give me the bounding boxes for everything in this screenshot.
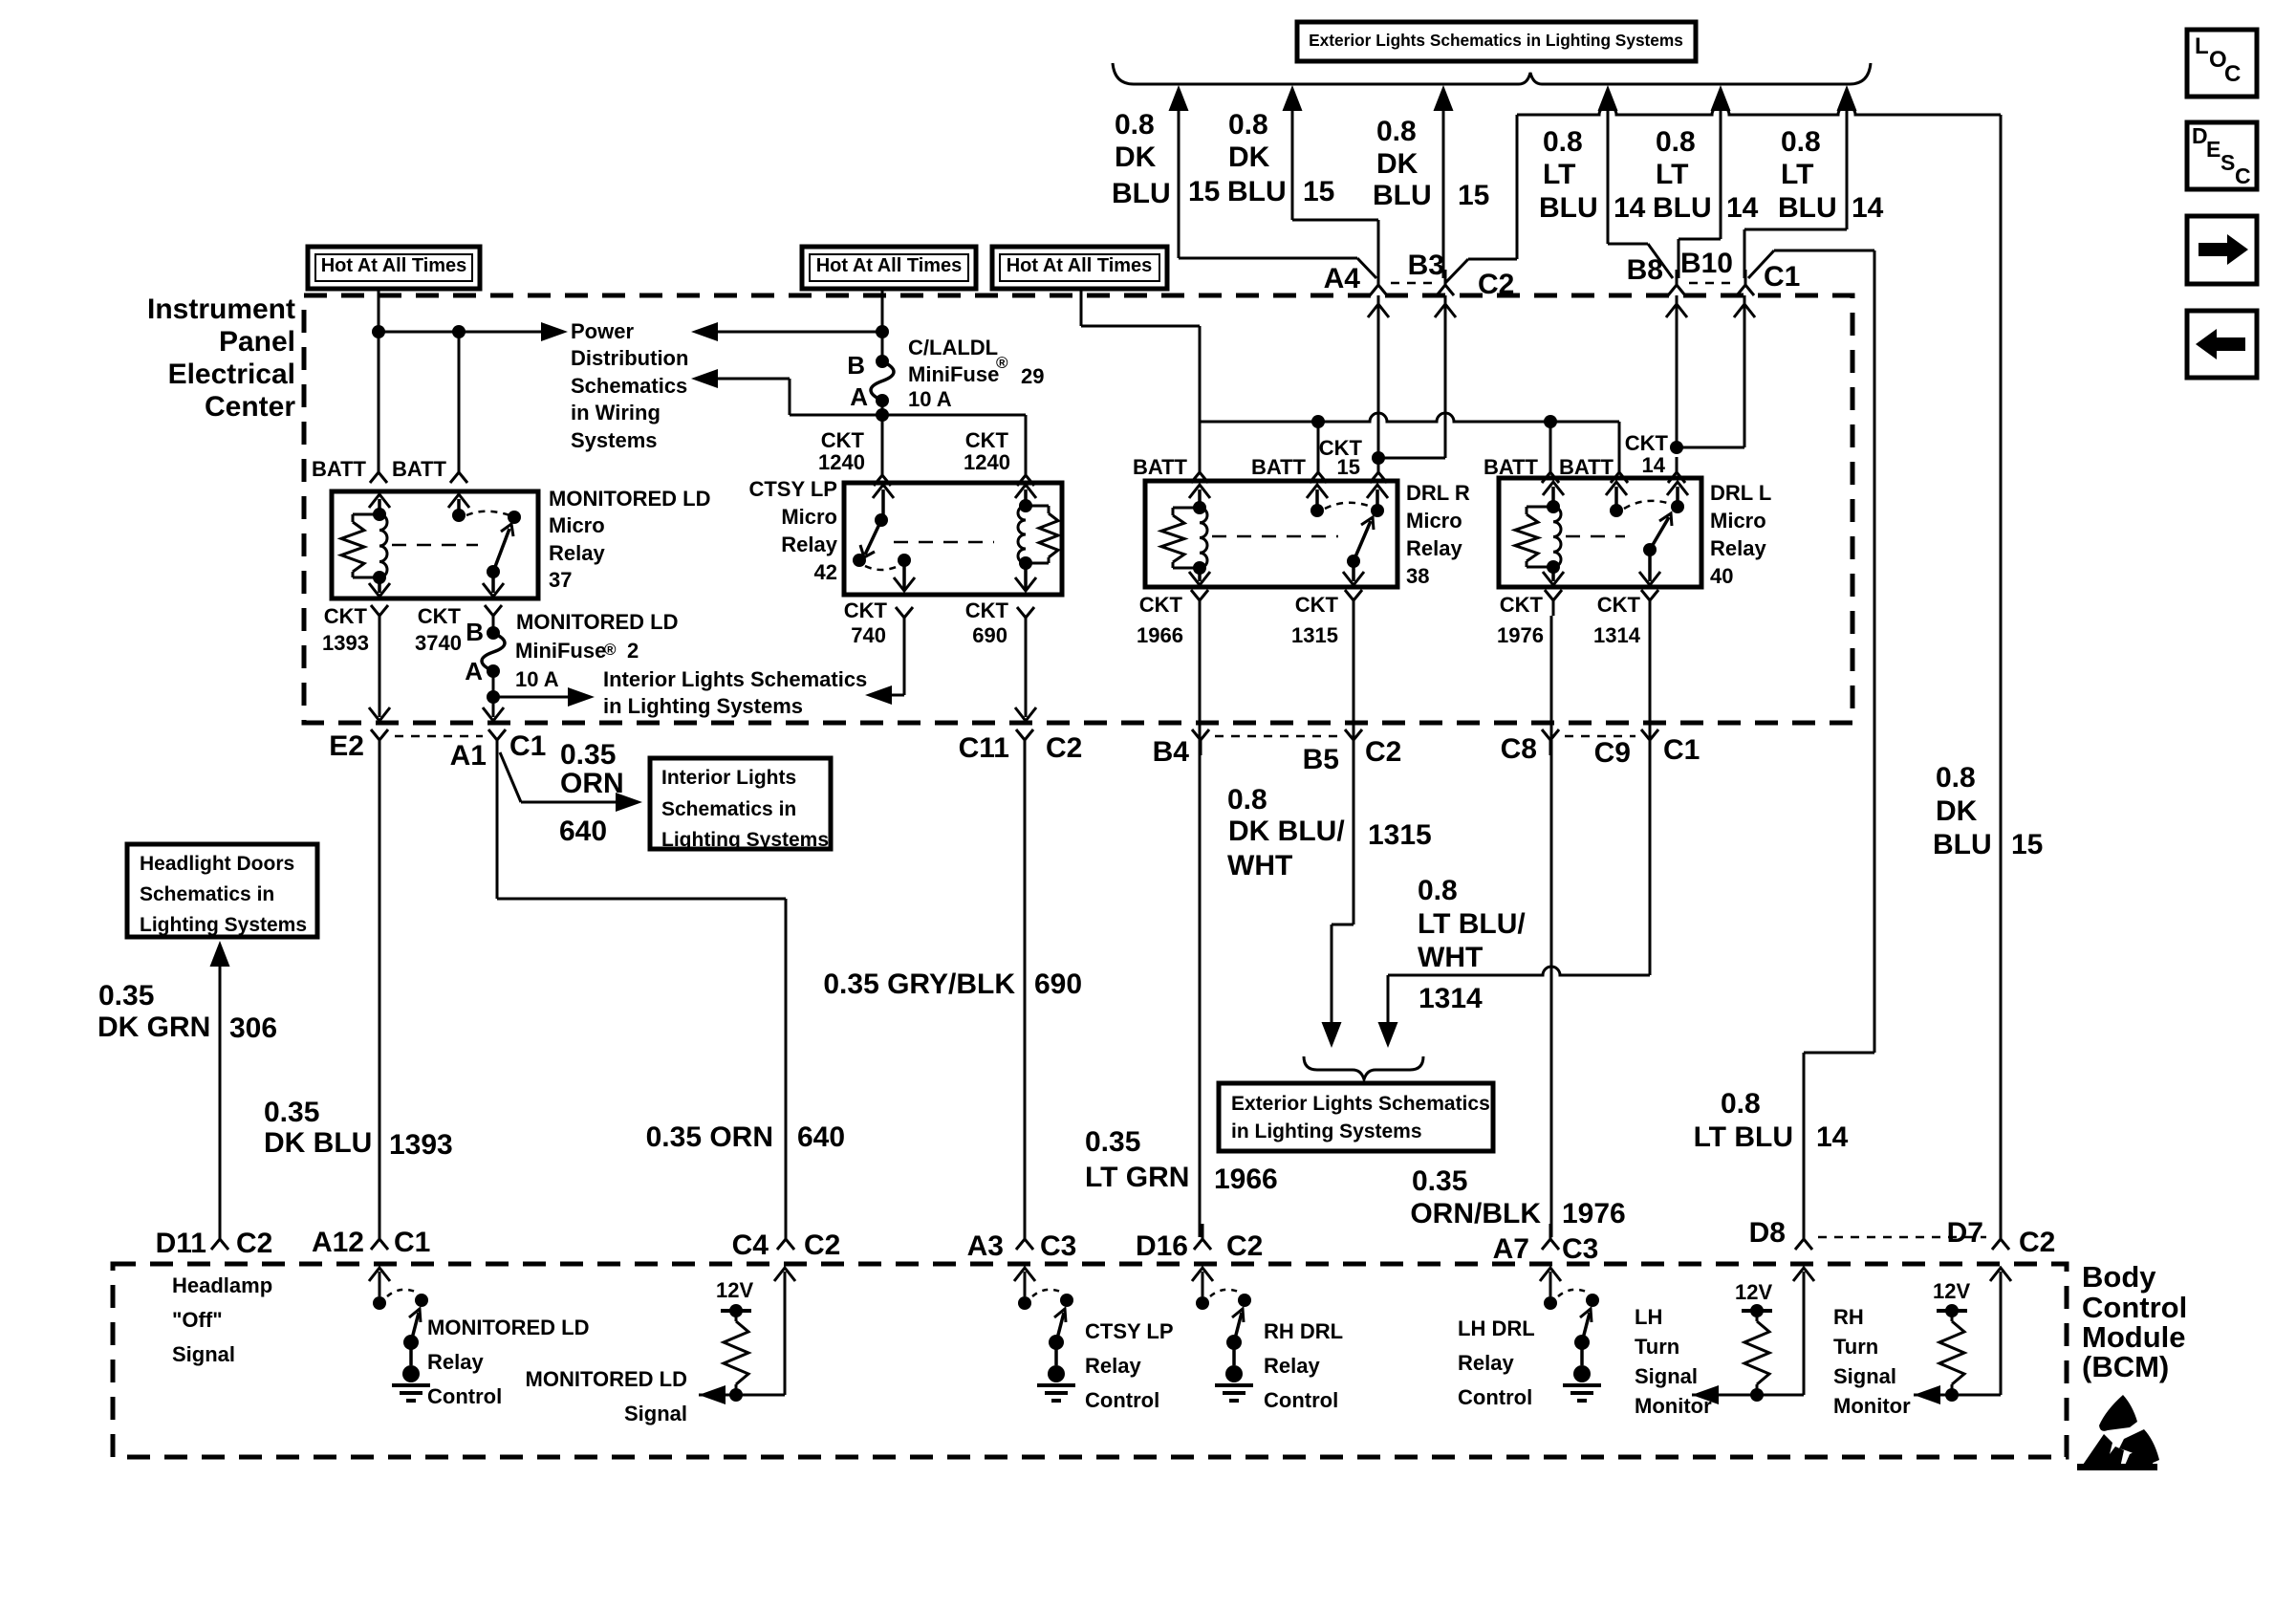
- wire: E2 to BCM A12 (0.35 DK BLU 1393): [379, 755, 381, 1237]
- svg-text:1966: 1966: [1214, 1164, 1278, 1195]
- label: CTSY LP Relay Control: [1085, 1319, 1174, 1412]
- svg-text:0.35: 0.35: [1412, 1165, 1467, 1197]
- svg-text:690: 690: [1034, 968, 1082, 1000]
- relay K40 coil output arrow (bottom): [1543, 567, 1564, 585]
- svg-text:C1: C1: [1663, 734, 1700, 766]
- svg-text:Signal: Signal: [1833, 1364, 1896, 1388]
- svg-text:3740: 3740: [415, 631, 462, 655]
- label box: Hot At All Times (left): [308, 247, 480, 289]
- arrow into Interior Lights Schematics box: [616, 793, 642, 812]
- switch: LH DRL Relay Control driver: [1540, 1268, 1601, 1401]
- svg-text:C4: C4: [732, 1229, 769, 1261]
- svg-text:Systems: Systems: [571, 428, 658, 452]
- icon box forward arrow: [2187, 216, 2257, 284]
- connector pin CKT 1966: [1137, 590, 1208, 647]
- svg-text:Instrument: Instrument: [147, 294, 295, 325]
- svg-text:DK: DK: [1115, 141, 1157, 173]
- relay K37 coil with parallel resistor: [341, 508, 387, 584]
- relay K40 switch feed pin arrow (top): [1667, 482, 1688, 507]
- svg-text:1976: 1976: [1562, 1198, 1626, 1229]
- svg-text:Distribution: Distribution: [571, 346, 688, 370]
- wire and junction: fuse 2 output: [483, 671, 572, 721]
- svg-text:LT BLU/: LT BLU/: [1418, 908, 1526, 940]
- svg-text:1966: 1966: [1137, 623, 1183, 647]
- svg-text:WHT: WHT: [1227, 850, 1292, 881]
- wire: BCM D11 to Headlight Doors box (0.35 DK GRN 306): [210, 941, 230, 1237]
- svg-text:15: 15: [2011, 829, 2043, 860]
- svg-text:L: L: [2195, 33, 2209, 59]
- svg-text:BLU: BLU: [1373, 180, 1432, 211]
- svg-text:0.8: 0.8: [1227, 784, 1267, 816]
- svg-text:Exterior Lights Schematics in: Exterior Lights Schematics in Lighting S…: [1309, 31, 1683, 50]
- svg-text:12V: 12V: [716, 1278, 753, 1302]
- svg-text:MONITORED LD: MONITORED LD: [427, 1316, 589, 1339]
- svg-text:Center: Center: [205, 391, 295, 423]
- relay K42 coil pin arrow (top): [1015, 485, 1036, 506]
- svg-text:0.35: 0.35: [264, 1097, 319, 1128]
- connector pin A12 of connector C1: [312, 1224, 430, 1258]
- wire: CKT 1966 to BCM D16 (0.35 LT GRN 1966): [1199, 616, 1202, 1237]
- svg-text:2: 2: [627, 639, 639, 663]
- label: 0.35 DK BLU 1393: [264, 1097, 453, 1161]
- label: DRL R Micro Relay 38: [1406, 481, 1470, 588]
- svg-text:LT GRN: LT GRN: [1085, 1162, 1189, 1193]
- label box: Interior Lights Schematics in Lighting Systems: [650, 758, 831, 851]
- connector pin CKT 1240 (left): [818, 428, 891, 486]
- svg-text:306: 306: [229, 1012, 277, 1044]
- svg-text:Relay: Relay: [1710, 536, 1766, 560]
- svg-text:MiniFuse: MiniFuse: [515, 639, 606, 663]
- svg-text:Micro: Micro: [781, 505, 837, 529]
- relay K40 switch common pin arrow (top): [1606, 482, 1627, 511]
- connector pin CKT 1240 (right): [964, 428, 1034, 486]
- svg-text:BLU: BLU: [1778, 192, 1837, 224]
- connector pin C4 of connector C2: [732, 1224, 841, 1261]
- svg-text:0.8: 0.8: [1543, 126, 1583, 158]
- junction dot at top of fuse 29 wire: [876, 325, 889, 338]
- connector pin D7 of connector C2: [1818, 1217, 2055, 1258]
- svg-text:Relay: Relay: [549, 541, 605, 565]
- svg-text:Relay: Relay: [1458, 1351, 1514, 1375]
- wire: 0.8 DK BLU 15 (A4 branch 2) to exterior lights: [1283, 85, 1379, 278]
- svg-text:Micro: Micro: [549, 513, 605, 537]
- svg-text:CKT: CKT: [1597, 593, 1641, 617]
- svg-text:BATT: BATT: [1559, 455, 1614, 479]
- svg-text:C3: C3: [1040, 1230, 1076, 1262]
- svg-text:640: 640: [559, 816, 607, 847]
- wire: 0.8 DK BLU 15 (B3 branch) to exterior lights: [1434, 85, 1454, 278]
- svg-text:10 A: 10 A: [515, 667, 559, 691]
- label box: Headlight Doors Schematics in Lighting Systems: [127, 844, 317, 937]
- connector pin CKT 1393: [322, 604, 388, 655]
- connector pin D8: [1749, 1217, 1812, 1250]
- svg-text:Monitor: Monitor: [1833, 1394, 1911, 1418]
- svg-text:42: 42: [814, 560, 837, 584]
- wire: 0.8 LT BLU 14 (B8 branch 1) to exterior lights: [1598, 85, 1674, 278]
- connector pin B10 of connector C1: [1680, 248, 1800, 295]
- connector pin BATT (relay 38 coil): [1133, 455, 1208, 483]
- svg-text:1976: 1976: [1497, 623, 1544, 647]
- svg-text:C/LALDL: C/LALDL: [908, 336, 998, 359]
- svg-text:CKT: CKT: [1500, 593, 1544, 617]
- wire: A4/B3 join to relay 38 switch CKT 15: [1368, 295, 1456, 458]
- brace over Exterior Lights Schematics box (middle): [1304, 1056, 1423, 1079]
- svg-text:CKT: CKT: [1625, 431, 1669, 455]
- resistor: 12V pull-up RH Turn Signal Monitor (D7): [1914, 1268, 2011, 1404]
- label: 0.8 DK BLU 15 (wire 1): [1112, 109, 1220, 209]
- svg-text:Panel: Panel: [219, 326, 295, 358]
- connector pin CKT 740: [844, 598, 913, 647]
- svg-text:BATT: BATT: [1484, 455, 1539, 479]
- svg-text:LT BLU: LT BLU: [1694, 1121, 1793, 1153]
- svg-text:ORN/BLK: ORN/BLK: [1410, 1198, 1541, 1229]
- svg-text:Relay: Relay: [1406, 536, 1462, 560]
- BATT bus over relays 38 and 40: [1200, 413, 1619, 466]
- svg-text:RH DRL: RH DRL: [1264, 1319, 1343, 1343]
- wire: CKT 1314 to exterior lights arrow (0.8 LT BLU/WHT 1314): [1378, 616, 1651, 1048]
- svg-text:Exterior Lights Schematics: Exterior Lights Schematics: [1231, 1093, 1490, 1115]
- label: C/LALDL MiniFuse 29 10 A: [908, 336, 1044, 411]
- label: MONITORED LD Micro Relay 37: [549, 487, 710, 592]
- svg-text:Micro: Micro: [1710, 509, 1766, 533]
- wire: Hot At All Times (right) feed to BATT bus: [1081, 289, 1200, 422]
- brace under exterior lights box: [1113, 63, 1871, 84]
- svg-text:0.8: 0.8: [1721, 1088, 1761, 1120]
- relay K40 switch: [1610, 500, 1684, 585]
- connector pin CKT 14: [1625, 431, 1685, 483]
- junction dot CKT 15: [1372, 451, 1385, 465]
- svg-text:0.35 ORN: 0.35 ORN: [646, 1121, 773, 1153]
- wire: CKT 1315 to exterior lights arrow (0.8 DK BLU/WHT 1315): [1322, 616, 1354, 1048]
- wire: A1 branch to Interior Lights Schematics box: [500, 752, 619, 802]
- icon box back arrow: [2187, 311, 2257, 378]
- svg-text:B8: B8: [1627, 254, 1663, 286]
- svg-text:14: 14: [1852, 192, 1884, 224]
- svg-text:Module: Module: [2082, 1320, 2186, 1354]
- wire: 0.8 LT BLU 14 (B10 branch) to exterior lights: [1744, 85, 1857, 278]
- svg-text:14: 14: [1642, 453, 1666, 477]
- svg-text:Power: Power: [571, 319, 634, 343]
- svg-text:Relay: Relay: [427, 1350, 484, 1374]
- label: LH Turn Signal Monitor: [1635, 1305, 1712, 1418]
- svg-text:Signal: Signal: [1635, 1364, 1698, 1388]
- connector pin CKT 3740: [415, 604, 502, 655]
- svg-text:in Lighting Systems: in Lighting Systems: [603, 694, 803, 718]
- svg-text:15: 15: [1458, 180, 1489, 211]
- svg-text:1240: 1240: [964, 450, 1010, 474]
- svg-text:Control: Control: [1458, 1385, 1532, 1409]
- connector pin B4: [1153, 729, 1209, 768]
- relay K42 switch pin arrow (top): [873, 485, 894, 520]
- switch: CTSY LP Relay Control driver: [1014, 1268, 1075, 1401]
- label: DRL L Micro Relay 40: [1710, 481, 1771, 588]
- svg-text:DK BLU/: DK BLU/: [1228, 816, 1345, 847]
- svg-text:E2: E2: [329, 730, 364, 762]
- connector pin CKT 690: [965, 598, 1034, 647]
- svg-text:C1: C1: [394, 1227, 430, 1258]
- svg-text:A1: A1: [450, 740, 487, 772]
- label: Interior Lights Schematics in Lighting Systems (text): [603, 667, 867, 718]
- relay K40 coil-switch dashed link: [1566, 535, 1625, 538]
- relay K42 coil with parallel resistor: [1018, 499, 1058, 570]
- label: CTSY LP Micro Relay 42: [748, 477, 837, 584]
- arrow to Interior Lights Schematics (from fuse 2): [568, 687, 595, 707]
- label: MONITORED LD Relay Control: [427, 1316, 589, 1408]
- connector pin A3 of connector C3: [967, 1224, 1077, 1262]
- svg-text:"Off": "Off": [172, 1308, 223, 1332]
- label: 0.35 LT GRN 1966: [1085, 1126, 1278, 1195]
- svg-text:C1: C1: [509, 730, 546, 762]
- svg-text:0.35: 0.35: [98, 980, 154, 1012]
- icon box DESC: [2187, 122, 2257, 189]
- svg-text:Electrical: Electrical: [168, 359, 295, 390]
- junction dots on battery feed: [372, 325, 466, 338]
- svg-text:Interior Lights Schematics: Interior Lights Schematics: [603, 667, 867, 691]
- svg-text:14: 14: [1816, 1121, 1849, 1153]
- svg-text:Headlamp: Headlamp: [172, 1273, 272, 1297]
- wire: C11 to BCM A3 (0.35 GRY/BLK 690): [1024, 755, 1027, 1237]
- connector pin A4: [1324, 263, 1387, 295]
- svg-text:Relay: Relay: [1264, 1354, 1320, 1378]
- label box: Hot At All Times (right): [992, 247, 1167, 289]
- resistor: 12V pull-up on MONITORED LD Signal (C4): [699, 1268, 795, 1404]
- svg-text:CKT: CKT: [844, 598, 888, 622]
- svg-text:37: 37: [549, 568, 572, 592]
- svg-text:MONITORED LD: MONITORED LD: [516, 610, 678, 634]
- svg-text:14: 14: [1614, 192, 1646, 224]
- svg-text:D8: D8: [1749, 1217, 1786, 1249]
- relay K37 MONITORED LD Micro Relay 37 box: [332, 491, 538, 598]
- relay K37 coil output arrow (bottom): [369, 577, 390, 597]
- svg-text:14: 14: [1726, 192, 1759, 224]
- relay K37 switch: [448, 494, 521, 597]
- ESD sensitivity symbol: [2077, 1395, 2159, 1470]
- connector pin CKT 1315: [1291, 590, 1362, 647]
- label: 0.8 LT BLU 14 (wire 6): [1778, 126, 1884, 224]
- svg-text:1314: 1314: [1419, 983, 1483, 1014]
- svg-text:Control: Control: [1085, 1388, 1159, 1412]
- junction dot below fuse 29: [876, 408, 889, 422]
- Instrument Panel Electrical Center dashed box: [304, 295, 1852, 723]
- wire: B10 splice to BCM D8 (0.8 LT BLU 14 right side): [1748, 250, 1874, 1237]
- svg-text:Interior Lights: Interior Lights: [661, 767, 796, 789]
- svg-text:CKT: CKT: [1295, 593, 1339, 617]
- svg-text:10 A: 10 A: [908, 387, 952, 411]
- svg-text:in Wiring: in Wiring: [571, 401, 661, 424]
- arrow to Interior Lights Schematics (from CKT 740): [865, 685, 892, 705]
- svg-text:BLU: BLU: [1112, 178, 1171, 209]
- svg-text:®: ®: [604, 641, 617, 659]
- wire: CKT 690 to IP box edge: [1015, 633, 1036, 721]
- svg-text:Body: Body: [2082, 1260, 2156, 1294]
- wire: Hot At All Times (center) feed through fuse 29: [881, 289, 884, 468]
- svg-text:CTSY LP: CTSY LP: [1085, 1319, 1174, 1343]
- relay K40 coil pin arrow (top): [1543, 482, 1564, 507]
- svg-text:CKT: CKT: [965, 428, 1009, 452]
- relay K40 coil with parallel resistor: [1515, 500, 1561, 574]
- svg-text:0.8: 0.8: [1115, 109, 1155, 141]
- arrow to Power Distribution Schematics (right): [541, 322, 568, 341]
- svg-text:LH: LH: [1635, 1305, 1662, 1329]
- relay K37 coil-switch dashed link: [392, 544, 478, 547]
- svg-text:D7: D7: [1947, 1217, 1983, 1249]
- svg-text:CKT: CKT: [965, 598, 1009, 622]
- label: 0.35 ORN 640 (A1 branch): [559, 739, 624, 847]
- svg-text:1315: 1315: [1291, 623, 1338, 647]
- connector pin A7 of connector C3: [1493, 1224, 1599, 1265]
- svg-text:C1: C1: [1764, 261, 1800, 293]
- connector pin B8: [1627, 254, 1685, 295]
- label: Headlamp Off Signal: [172, 1273, 272, 1366]
- svg-text:1393: 1393: [322, 631, 369, 655]
- label: 0.8 LT BLU 14 (right side): [1694, 1088, 1849, 1153]
- svg-text:C: C: [2224, 61, 2241, 87]
- relay K38 switch feed pin arrow (top): [1367, 485, 1388, 511]
- svg-text:A3: A3: [967, 1230, 1004, 1262]
- label: 0.35 ORN 640 (lower): [646, 1121, 845, 1153]
- svg-text:0.35 GRY/BLK: 0.35 GRY/BLK: [823, 968, 1015, 1000]
- svg-text:CKT: CKT: [418, 604, 462, 628]
- wire: CKT 1393 to IP box edge: [369, 631, 390, 721]
- fuse F29 C/LALDL MiniFuse 29 10 A: [847, 351, 894, 411]
- svg-text:BATT: BATT: [1251, 455, 1307, 479]
- label: 0.8 DK BLU 15 (wire 3): [1373, 116, 1489, 211]
- svg-text:D16: D16: [1136, 1230, 1188, 1262]
- svg-text:15: 15: [1337, 455, 1360, 479]
- svg-text:DK: DK: [1936, 795, 1978, 827]
- svg-text:Turn: Turn: [1833, 1335, 1878, 1359]
- svg-text:E: E: [2206, 137, 2220, 162]
- label: RH DRL Relay Control: [1264, 1319, 1343, 1412]
- svg-text:Control: Control: [2082, 1291, 2187, 1324]
- svg-text:Lighting Systems: Lighting Systems: [140, 914, 307, 936]
- svg-text:1315: 1315: [1368, 819, 1432, 851]
- svg-text:40: 40: [1710, 564, 1733, 588]
- svg-text:LH DRL: LH DRL: [1458, 1316, 1535, 1340]
- svg-text:0.35: 0.35: [1085, 1126, 1140, 1158]
- svg-text:0.35: 0.35: [560, 739, 616, 771]
- label: 0.35 DK GRN 306: [97, 980, 277, 1044]
- svg-text:B5: B5: [1303, 744, 1339, 775]
- svg-text:C2: C2: [2019, 1227, 2055, 1258]
- svg-text:BLU: BLU: [1933, 829, 1992, 860]
- svg-text:B10: B10: [1680, 248, 1733, 279]
- connector pin D11 of connector C2: [156, 1224, 273, 1259]
- svg-text:Hot At All Times: Hot At All Times: [816, 255, 963, 276]
- label box: Exterior Lights Schematics in Lighting Systems (top): [1297, 22, 1696, 61]
- switch: RH DRL Relay Control driver: [1192, 1268, 1253, 1401]
- connector pin BATT (relay 37 coil): [312, 457, 387, 483]
- relay K42 CTSY LP Micro Relay 42 box: [844, 483, 1062, 595]
- svg-text:0.8: 0.8: [1656, 126, 1696, 158]
- svg-text:Turn: Turn: [1635, 1335, 1679, 1359]
- relay K38 switch common pin arrow (top): [1307, 485, 1328, 511]
- connector pin E2: [329, 729, 388, 762]
- relay K37 coil pin arrow (top): [369, 494, 390, 514]
- svg-text:0.8: 0.8: [1781, 126, 1821, 158]
- relay K42 switch: [853, 513, 915, 591]
- svg-text:Headlight Doors: Headlight Doors: [140, 853, 294, 875]
- svg-text:DK: DK: [1228, 141, 1270, 173]
- svg-text:in Lighting Systems: in Lighting Systems: [1231, 1120, 1422, 1142]
- label: Power Distribution Schematics in Wiring Systems: [571, 319, 688, 452]
- relay K38 coil-switch dashed link: [1212, 535, 1338, 538]
- svg-text:DK BLU: DK BLU: [264, 1127, 372, 1159]
- svg-text:12V: 12V: [1933, 1279, 1970, 1303]
- svg-text:Schematics in: Schematics in: [140, 883, 274, 905]
- svg-text:S: S: [2220, 150, 2235, 175]
- svg-text:A7: A7: [1493, 1233, 1529, 1265]
- svg-text:Relay: Relay: [1085, 1354, 1141, 1378]
- svg-text:A4: A4: [1324, 263, 1361, 294]
- wire: B3 splice to BCM D7 (0.8 DK BLU 15 right side): [1445, 106, 2001, 1237]
- svg-text:38: 38: [1406, 564, 1429, 588]
- svg-text:0.8: 0.8: [1418, 875, 1458, 906]
- svg-text:BATT: BATT: [392, 457, 447, 481]
- svg-text:®: ®: [996, 354, 1008, 372]
- label: 0.8 LT BLU 14 (wire 4): [1539, 126, 1646, 224]
- connector pin BATT (relay 40 switch): [1559, 455, 1628, 483]
- svg-text:C11: C11: [959, 732, 1009, 764]
- svg-text:B3: B3: [1408, 250, 1444, 281]
- relay K42 coil-switch dashed link: [894, 541, 994, 544]
- svg-text:690: 690: [972, 623, 1007, 647]
- fuse F2 MONITORED LD MiniFuse 2 10 A: [465, 618, 505, 685]
- connector pin B3 of connector C2: [1391, 250, 1514, 300]
- icon box LOC: [2187, 30, 2257, 97]
- svg-text:12V: 12V: [1735, 1280, 1772, 1304]
- svg-text:CKT: CKT: [324, 604, 368, 628]
- label: 0.8 LT BLU/WHT 1314: [1418, 875, 1526, 1014]
- relay K40 DRL L Micro Relay 40 box: [1499, 478, 1701, 587]
- label: Instrument Panel Electrical Center: [147, 294, 295, 423]
- arrow from Power Distribution Schematics (lower left): [691, 369, 882, 415]
- label: Body Control Module (BCM): [2082, 1260, 2187, 1383]
- wire: B8/B10 join to relay 40 switch CKT 14: [1666, 295, 1755, 453]
- svg-text:CKT: CKT: [1139, 593, 1183, 617]
- svg-text:Relay: Relay: [781, 533, 837, 556]
- svg-text:740: 740: [851, 623, 886, 647]
- connector pin C11 of connector C2: [959, 729, 1083, 764]
- resistor: 12V pull-up LH Turn Signal Monitor (D8): [1692, 1268, 1814, 1404]
- connector pin B5 of connector C2: [1215, 729, 1401, 775]
- svg-text:Signal: Signal: [624, 1402, 687, 1425]
- label: 0.8 DK BLU/WHT 1315: [1227, 784, 1432, 881]
- svg-text:Control: Control: [1264, 1388, 1338, 1412]
- svg-text:Control: Control: [427, 1384, 502, 1408]
- wire: CKT 1240 split to relay 42 coil: [790, 415, 1026, 468]
- svg-text:Lighting Systems: Lighting Systems: [661, 829, 829, 851]
- svg-text:A: A: [850, 382, 868, 411]
- label box: Hot At All Times (center): [802, 247, 976, 289]
- svg-text:B4: B4: [1153, 736, 1190, 768]
- svg-text:DRL L: DRL L: [1710, 481, 1771, 505]
- svg-text:MONITORED LD: MONITORED LD: [526, 1367, 687, 1391]
- junction dot CKT 14: [1670, 441, 1683, 454]
- svg-text:WHT: WHT: [1418, 942, 1483, 973]
- svg-text:C2: C2: [1226, 1230, 1263, 1262]
- svg-text:Micro: Micro: [1406, 509, 1462, 533]
- connector pin BATT (relay 37 switch): [392, 457, 467, 483]
- connector pin BATT (relay 40 coil): [1484, 455, 1559, 483]
- wire: A1 to BCM C4 (0.35 ORN 640): [497, 755, 786, 1237]
- label: 0.35 GRY/BLK 690: [823, 968, 1082, 1000]
- wire: 0.8 DK BLU 15 (A4 branch 1) to exterior lights: [1169, 85, 1377, 278]
- svg-text:29: 29: [1021, 364, 1044, 388]
- relay K38 coil with parallel resistor: [1161, 501, 1207, 575]
- label box: Exterior Lights Schematics in Lighting Systems (middle): [1219, 1083, 1493, 1151]
- svg-text:A: A: [465, 657, 483, 685]
